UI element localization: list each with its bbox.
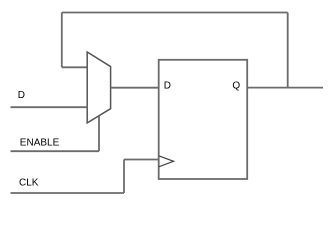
mux M1 (2:1 multiplexer trapezoid): [87, 52, 110, 123]
clock input triangle of flip-flop: [159, 156, 174, 167]
wire: ENABLE horizontal: [11, 150, 100, 152]
wire: CLK horizontal into clock pin: [124, 159, 159, 161]
wire: mux output to flip-flop D pin: [111, 87, 159, 89]
wire: mux select vertical: [98, 116, 100, 151]
wire: feedback right vertical from top to Q net: [287, 13, 289, 88]
wire: feedback left vertical: [61, 13, 63, 68]
svg-text:CLK: CLK: [19, 178, 39, 189]
wire: CLK horizontal: [11, 192, 125, 194]
svg-text:D: D: [164, 80, 171, 91]
wire: D input horizontal: [11, 106, 88, 108]
svg-text:D: D: [18, 90, 25, 101]
wire: Q output horizontal: [247, 87, 323, 89]
svg-text:Q: Q: [232, 80, 240, 91]
wire: CLK vertical riser: [123, 160, 125, 194]
flip-flop U1 (D flip-flop body): [159, 60, 248, 179]
wire: feedback top horizontal: [62, 12, 288, 14]
svg-text:ENABLE: ENABLE: [20, 137, 60, 148]
wire: feedback horizontal into mux input 1: [62, 66, 87, 68]
